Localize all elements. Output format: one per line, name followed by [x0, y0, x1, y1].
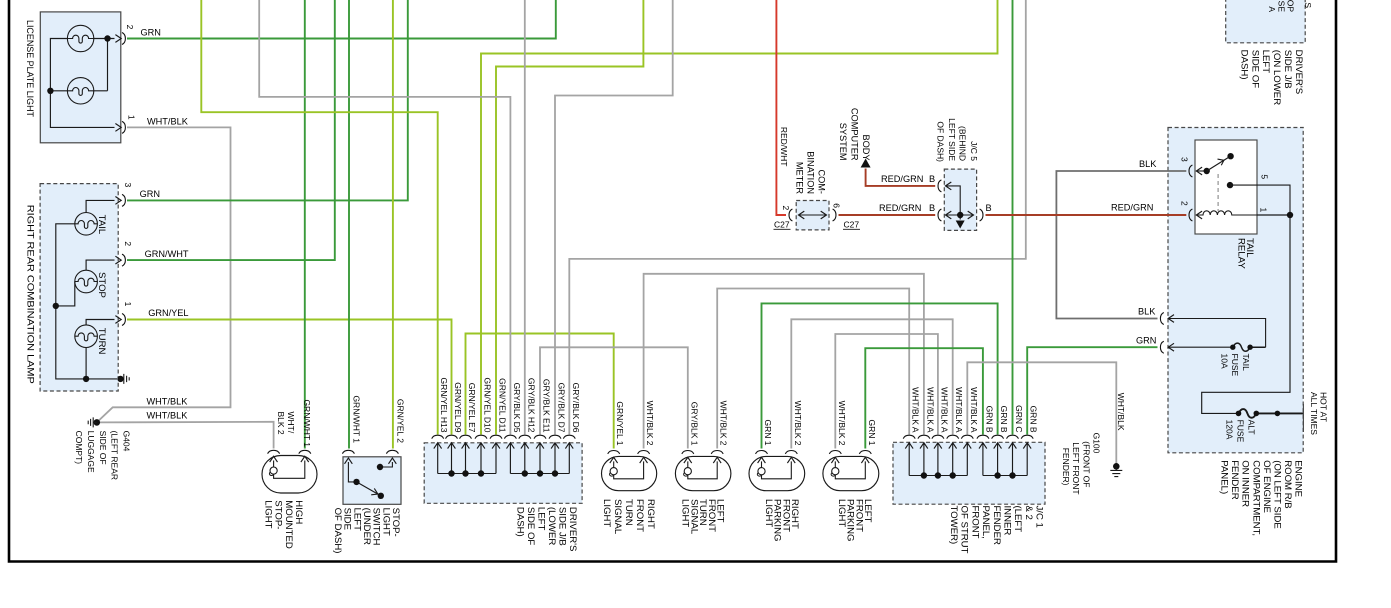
svg-text:GRY/BLK D7: GRY/BLK D7	[556, 383, 566, 433]
svg-text:HOT AT: HOT AT	[1318, 392, 1328, 422]
svg-text:3: 3	[123, 183, 133, 188]
svg-text:FUSE: FUSE	[1235, 420, 1245, 443]
junction license bulbs left	[47, 88, 53, 94]
wire RED/WHT to combination meter	[776, 0, 786, 215]
wire RED/GRN combination meter to J/C 5	[839, 214, 936, 216]
svg-text:STOP: STOP	[96, 272, 107, 298]
svg-text:WHT/BLK: WHT/BLK	[147, 116, 189, 126]
svg-text:GRN/YEL D10: GRN/YEL D10	[482, 378, 492, 433]
svg-text:2: 2	[125, 25, 135, 30]
combination lamp internal wiring	[56, 200, 117, 379]
svg-text:GRY/BLK H12: GRY/BLK H12	[526, 378, 536, 433]
wire GRN/YEL J/B E7 to right front turn signal pin 1	[466, 334, 614, 449]
svg-text:WHT/BLK A: WHT/BLK A	[925, 387, 935, 433]
svg-text:COMPUTER: COMPUTER	[849, 108, 859, 161]
connector combination lamp pin 2	[115, 256, 121, 264]
wire GRY/BLK J/B D7	[555, 0, 673, 435]
svg-text:RELAY: RELAY	[1235, 238, 1246, 269]
svg-text:SIDE OF: SIDE OF	[525, 507, 536, 546]
svg-text:TURN: TURN	[96, 328, 107, 355]
svg-text:G100: G100	[1091, 433, 1101, 454]
svg-text:J/C 1: J/C 1	[1034, 506, 1045, 528]
svg-text:RED/GRN: RED/GRN	[1111, 203, 1153, 213]
svg-text:FRONT: FRONT	[969, 506, 980, 539]
svg-text:PANEL): PANEL)	[1218, 460, 1229, 494]
svg-text:LICENSE PLATE LIGHT: LICENSE PLATE LIGHT	[24, 20, 35, 117]
svg-text:WHT/BLK A: WHT/BLK A	[911, 387, 921, 433]
wire GRY/BLK J/B E11 to left front turn signal pin 1	[540, 347, 688, 448]
svg-text:(ON LEFT SIDE: (ON LEFT SIDE	[1271, 460, 1282, 529]
svg-text:WHT/BLK 2: WHT/BLK 2	[793, 401, 803, 446]
wire GRY/BLK J/B D6	[569, 0, 1026, 435]
svg-text:COMPT): COMPT)	[74, 431, 84, 465]
J/C 5 internals	[938, 180, 941, 192]
J/C 5 box	[944, 169, 976, 230]
svg-text:INNER: INNER	[1001, 506, 1012, 536]
svg-text:2: 2	[781, 206, 791, 211]
svg-text:J/C 5: J/C 5	[969, 141, 979, 161]
wire GRN J/C C	[1012, 0, 1014, 435]
svg-text:GRY/BLK D6: GRY/BLK D6	[571, 383, 581, 433]
wire GRN right front parking pin 1 to J/C B	[762, 303, 998, 448]
svg-text:(ON LOWER: (ON LOWER	[1271, 50, 1282, 106]
wire GRN license plate pin 2	[127, 0, 556, 39]
svg-text:SIDE J/B: SIDE J/B	[556, 507, 567, 546]
svg-text:DRIVER'S: DRIVER'S	[1293, 50, 1304, 94]
svg-text:DASH): DASH)	[1238, 50, 1249, 80]
stop light switch box	[343, 457, 401, 505]
svg-text:120A: 120A	[1225, 420, 1235, 440]
high mounted stop light	[262, 456, 317, 494]
license plate light box	[40, 12, 121, 143]
svg-text:ROOM R/B: ROOM R/B	[1282, 460, 1293, 509]
J/C 5 down arrow	[956, 221, 965, 229]
connector relay pin 2	[1189, 209, 1192, 221]
svg-text:GRN B: GRN B	[984, 406, 994, 433]
svg-text:LIGHT: LIGHT	[680, 499, 691, 527]
svg-text:5: 5	[1259, 174, 1269, 179]
svg-text:GRN: GRN	[140, 189, 160, 199]
svg-text:FENDER: FENDER	[991, 506, 1002, 546]
svg-text:6: 6	[831, 203, 841, 208]
svg-text:WHT/BLK 2: WHT/BLK 2	[719, 401, 729, 446]
wire WHT/BLK J/C A to G100	[967, 362, 1116, 464]
svg-text:WHT/BLK: WHT/BLK	[147, 411, 189, 421]
svg-text:GRY/BLK D5: GRY/BLK D5	[512, 383, 522, 433]
svg-text:GRN: GRN	[141, 27, 161, 37]
J/C 5 junction	[957, 212, 963, 218]
driver's side J/B box	[424, 443, 582, 504]
svg-text:10A: 10A	[1220, 354, 1230, 369]
relay pin 1 junction	[1287, 212, 1293, 218]
svg-text:FUSE: FUSE	[1230, 354, 1240, 377]
turn bulb	[75, 325, 98, 348]
svg-text:WHT/BLK 2: WHT/BLK 2	[645, 401, 655, 446]
svg-text:C27: C27	[844, 219, 860, 229]
wire GRN/WHT stop light switch pin 1	[348, 0, 350, 449]
wire GRN combination lamp pin 3	[127, 0, 408, 200]
connector license pin 1	[115, 124, 121, 132]
svg-text:A: A	[1267, 6, 1277, 12]
svg-text:SIDE J/B: SIDE J/B	[1282, 50, 1293, 89]
wire RED/GRN J/C 5 to body computer system	[866, 169, 936, 186]
svg-text:SIGNAL: SIGNAL	[612, 499, 623, 535]
engine room R/B box	[1168, 128, 1303, 453]
svg-text:(LOWER: (LOWER	[546, 507, 557, 545]
svg-text:BODY: BODY	[861, 134, 871, 160]
svg-text:OF DASH): OF DASH)	[935, 121, 945, 162]
wire GRN engine room R/B to J/C B	[1027, 347, 1157, 434]
svg-text:WHT/BLK: WHT/BLK	[1116, 393, 1126, 431]
svg-text:SIDE OF: SIDE OF	[1249, 50, 1260, 89]
svg-text:RIGHT: RIGHT	[645, 499, 656, 529]
wire WHT/BLK left front parking pin 2 to J/C A	[835, 334, 938, 449]
wire WHT/BLK right front parking pin 2 to J/C A	[791, 319, 952, 448]
svg-text:& 2: & 2	[1023, 506, 1034, 520]
svg-text:FENDER: FENDER	[1229, 460, 1240, 500]
combination lamp internal ground	[117, 376, 123, 382]
svg-text:GRN B: GRN B	[999, 406, 1009, 433]
svg-text:BINATION: BINATION	[806, 151, 816, 194]
svg-text:GRY/BLK E11: GRY/BLK E11	[541, 379, 551, 433]
svg-text:OF ENGINE: OF ENGINE	[1261, 460, 1272, 513]
wire WHT/BLK left front turn signal pin 2 to J/C A	[717, 289, 909, 449]
relay pin 1 wire	[1202, 215, 1290, 413]
svg-text:RED/GRN: RED/GRN	[881, 174, 923, 184]
svg-text:RIGHT REAR COMBINATION LAMP: RIGHT REAR COMBINATION LAMP	[25, 205, 36, 384]
relay switch	[1204, 168, 1210, 174]
wire GRY/BLK J/B D5	[259, 0, 510, 435]
svg-text:WHT/BLK A: WHT/BLK A	[939, 387, 949, 433]
left front turn signal light	[675, 456, 731, 490]
connector license pin 2	[115, 35, 121, 43]
svg-text:TAIL: TAIL	[96, 215, 107, 235]
body computer system arrow	[861, 159, 871, 168]
connector relay pin 3	[1189, 165, 1192, 177]
svg-text:WHT/BLK: WHT/BLK	[147, 396, 189, 406]
svg-text:COM-: COM-	[817, 170, 827, 195]
svg-text:ALL TIMES: ALL TIMES	[1309, 392, 1319, 435]
svg-text:GRN/WHT 1: GRN/WHT 1	[351, 395, 361, 443]
svg-text:2: 2	[123, 241, 133, 246]
svg-text:GRN B: GRN B	[1029, 406, 1039, 433]
svg-text:BLK 2: BLK 2	[276, 412, 286, 435]
relay coil	[1196, 211, 1257, 215]
svg-text:GRN/WHT: GRN/WHT	[145, 249, 189, 259]
svg-text:GRN 1: GRN 1	[867, 420, 877, 446]
svg-text:LEFT SIDE: LEFT SIDE	[947, 118, 957, 161]
svg-text:TAIL: TAIL	[1241, 354, 1251, 372]
svg-text:TOWER): TOWER)	[948, 506, 959, 545]
svg-text:RED/WHT: RED/WHT	[779, 127, 789, 167]
svg-text:(FRONT OF: (FRONT OF	[1081, 441, 1091, 487]
tail fuse	[1168, 346, 1233, 348]
alt fuse	[1239, 409, 1304, 418]
svg-text:FRONT: FRONT	[634, 499, 645, 532]
wire BLK tail relay pin 3 loop	[1056, 171, 1186, 319]
svg-text:GRN/YEL E7: GRN/YEL E7	[467, 383, 477, 433]
svg-text:RED/GRN: RED/GRN	[879, 203, 921, 213]
svg-text:S: S	[1303, 2, 1313, 8]
J/B left bus	[438, 473, 496, 475]
svg-text:B: B	[929, 174, 935, 184]
svg-text:DRIVER'S: DRIVER'S	[567, 507, 578, 551]
R/B BLK internal wire	[1168, 319, 1265, 348]
tail relay box	[1195, 140, 1257, 234]
svg-text:BLK: BLK	[1138, 306, 1156, 316]
wire GRN/WHT high mounted stop light pin 1	[304, 0, 306, 449]
svg-text:GRN/YEL D11: GRN/YEL D11	[497, 378, 507, 433]
right front parking light	[749, 456, 805, 490]
wire GRN/WHT combination lamp pin 2	[127, 0, 335, 260]
J/B pins and internals	[432, 435, 444, 438]
svg-text:ENGINE: ENGINE	[1293, 460, 1304, 497]
junction turn bulb	[83, 376, 89, 382]
svg-text:WHT/BLK A: WHT/BLK A	[969, 387, 979, 433]
svg-text:GRN/YEL: GRN/YEL	[148, 308, 188, 318]
ground G404	[94, 419, 101, 426]
connector combination lamp pin 3	[115, 197, 121, 205]
svg-text:BLK: BLK	[1139, 159, 1157, 169]
license plate light bulb 2	[67, 78, 93, 104]
wire GRN/YEL J/B D10	[481, 0, 998, 435]
wire GRN/YEL stop light switch pin 2	[392, 0, 394, 449]
switch blade	[357, 482, 381, 496]
svg-text:LIGHT: LIGHT	[262, 500, 273, 528]
J/B right bus	[510, 473, 569, 475]
svg-text:(LEFT REAR: (LEFT REAR	[110, 431, 120, 480]
svg-text:GRN C: GRN C	[1014, 405, 1024, 432]
wire GRN/YEL J/B H13	[201, 0, 437, 435]
svg-text:GRN/YEL H13: GRN/YEL H13	[439, 378, 449, 433]
tail bulb	[75, 213, 98, 236]
svg-text:B: B	[929, 203, 935, 213]
wire WHT/BLK G404 to high mounted stop light pin 2	[97, 422, 274, 449]
svg-text:LIGHT: LIGHT	[601, 499, 612, 527]
combination meter internals	[789, 209, 792, 221]
svg-text:LEFT: LEFT	[1260, 50, 1271, 74]
svg-text:SIDE OF: SIDE OF	[98, 431, 108, 465]
switch contact dots	[377, 464, 383, 470]
svg-text:WHT/BLK 2: WHT/BLK 2	[837, 401, 847, 446]
relay link dashed	[1217, 174, 1219, 211]
svg-text:LUGGAGE: LUGGAGE	[86, 431, 96, 473]
svg-text:WHT/BLK A: WHT/BLK A	[954, 387, 964, 433]
junction license bulbs right	[104, 35, 110, 41]
wire GRN/YEL combination lamp pin 1 to J/B D9	[127, 320, 452, 435]
wire GRN left front parking pin 1 to J/C B	[865, 348, 983, 448]
svg-text:LEFT FRONT: LEFT FRONT	[1071, 442, 1081, 494]
J/C 1 and 2 pins and internals	[903, 435, 915, 438]
svg-text:GRN: GRN	[1136, 336, 1156, 346]
svg-text:ON INNER: ON INNER	[1240, 460, 1251, 507]
connector combination lamp pin 1	[115, 316, 121, 324]
license plate light bulb 1	[67, 25, 93, 51]
svg-text:(LEFT: (LEFT	[1012, 506, 1023, 533]
svg-text:C27: C27	[774, 219, 790, 229]
svg-text:TURN: TURN	[623, 499, 634, 526]
svg-text:DASH): DASH)	[514, 507, 525, 537]
svg-text:GRN/YEL 1: GRN/YEL 1	[615, 401, 625, 445]
svg-text:WHT/: WHT/	[286, 412, 296, 434]
svg-text:1: 1	[1259, 208, 1269, 213]
relay pin 5 wire	[1227, 182, 1233, 188]
svg-text:(BEHIND: (BEHIND	[958, 126, 968, 161]
svg-text:2: 2	[1179, 201, 1189, 206]
svg-text:1: 1	[126, 115, 136, 120]
left front parking light	[823, 456, 879, 490]
right front turn signal light	[602, 456, 657, 490]
wire WHT/BLK right front turn signal pin 2 to J/C A	[644, 274, 924, 449]
svg-text:LEFT: LEFT	[535, 507, 546, 531]
right rear combination lamp box	[40, 184, 118, 391]
svg-text:GRN 1: GRN 1	[763, 420, 773, 446]
driver's side J/B box top right	[1226, 0, 1306, 43]
wire RED/GRN J/C 5 to tail relay pin 2	[986, 214, 1187, 216]
stop bulb	[75, 270, 98, 293]
svg-text:1: 1	[123, 302, 133, 307]
svg-text:PANEL,: PANEL,	[980, 506, 991, 539]
svg-text:OF STRUT: OF STRUT	[959, 506, 970, 554]
svg-text:COMPARTMENT,: COMPARTMENT,	[1250, 460, 1261, 536]
svg-text:G404: G404	[122, 431, 132, 452]
connector R/B BLK	[1160, 313, 1163, 325]
svg-text:SYSTEM: SYSTEM	[838, 123, 848, 161]
alt fuse junction	[1275, 411, 1281, 417]
svg-text:ALT: ALT	[1246, 420, 1256, 435]
svg-text:B: B	[986, 203, 992, 213]
R/B border solid notch	[1302, 404, 1304, 432]
wire GRN/YEL J/B D11	[496, 0, 643, 435]
combination meter box	[796, 201, 829, 230]
svg-text:OF DASH): OF DASH)	[332, 508, 343, 554]
svg-text:GRY/BLK 1: GRY/BLK 1	[689, 402, 699, 446]
svg-text:METER: METER	[795, 162, 805, 195]
svg-text:3: 3	[1179, 157, 1189, 162]
svg-text:FENDER): FENDER)	[1061, 448, 1071, 486]
wire WHT/BLK license plate pin 1 to G404	[97, 127, 231, 422]
J/C right bus	[983, 475, 1027, 477]
svg-text:LIGHT: LIGHT	[836, 499, 847, 527]
wire GRY/BLK J/B H12	[524, 0, 526, 435]
svg-text:LIGHT: LIGHT	[763, 499, 774, 527]
junction stop bulb	[53, 303, 59, 309]
license plate light internal wiring	[50, 39, 114, 128]
stop light switch internals	[342, 450, 354, 453]
J/C left bus	[909, 475, 967, 477]
svg-text:GRN/YEL D9: GRN/YEL D9	[453, 382, 463, 433]
ground G100	[1113, 463, 1120, 470]
svg-text:GRN/WHT 1: GRN/WHT 1	[302, 399, 312, 447]
connector R/B GRN	[1160, 341, 1163, 353]
svg-text:GRN/YEL 2: GRN/YEL 2	[395, 399, 405, 443]
J/C 1 and 2 box	[893, 442, 1045, 504]
